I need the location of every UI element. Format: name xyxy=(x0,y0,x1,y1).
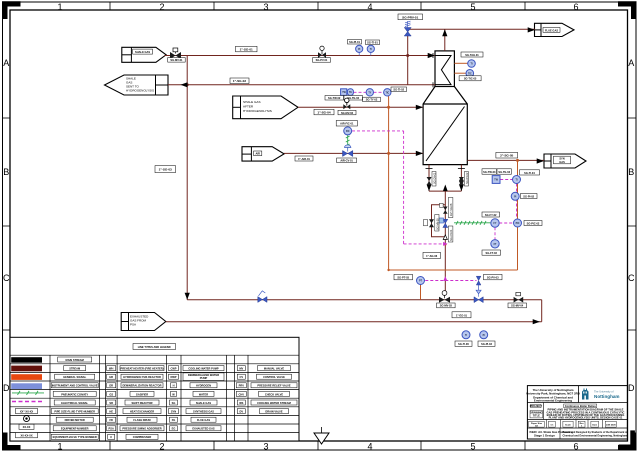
svg-text:INSTRUMENT AND CONTROL VALVE: INSTRUMENT AND CONTROL VALVE xyxy=(52,384,98,388)
svg-text:SYN: SYN xyxy=(171,410,176,414)
svg-text:1"-SG-06: 1"-SG-06 xyxy=(426,254,438,258)
svg-text:SG-PRV-01: SG-PRV-01 xyxy=(402,15,418,19)
svg-text:DRAIN VALVE: DRAIN VALVE xyxy=(265,410,282,414)
svg-text:FLUE GAS: FLUE GAS xyxy=(197,418,210,422)
svg-text:2"-SG-05: 2"-SG-05 xyxy=(500,154,513,158)
svg-text:CWP: CWP xyxy=(170,367,176,371)
svg-text:PRESSURE SWING ADSORBER: PRESSURE SWING ADSORBER xyxy=(122,427,161,431)
svg-text:HYDROGENOLYSIS: HYDROGENOLYSIS xyxy=(126,89,154,93)
svg-text:SG-DV-02: SG-DV-02 xyxy=(466,172,469,184)
svg-text:EQUIPMENT-VALVE TYPE-NUMBER: EQUIPMENT-VALVE TYPE-NUMBER xyxy=(53,435,97,439)
svg-text:COMPRESSER: COMPRESSER xyxy=(133,435,152,439)
svg-text:PSA: PSA xyxy=(130,323,136,327)
svg-text:XX-XX: XX-XX xyxy=(23,425,31,429)
svg-text:STREAM: STREAM xyxy=(69,367,80,371)
svg-text:3: 3 xyxy=(263,442,268,452)
svg-text:PI: PI xyxy=(358,49,361,51)
svg-text:DEMINERALIZATION REACTOR: DEMINERALIZATION REACTOR xyxy=(122,384,161,388)
svg-text:SG-TY-02: SG-TY-02 xyxy=(366,98,378,102)
svg-text:MV: MV xyxy=(239,367,243,371)
svg-text:SG-TIC-05: SG-TIC-05 xyxy=(464,77,477,81)
svg-text:SG-FT-02: SG-FT-02 xyxy=(486,251,498,255)
svg-text:SG-TAH-01: SG-TAH-01 xyxy=(465,53,479,57)
svg-text:GENERAL SIGNAL: GENERAL SIGNAL xyxy=(63,375,87,379)
svg-text:A: A xyxy=(628,58,634,68)
svg-text:TI: TI xyxy=(515,180,517,182)
svg-text:CV: CV xyxy=(239,375,243,379)
svg-text:2: 2 xyxy=(159,442,164,452)
svg-text:PIC: PIC xyxy=(516,223,520,225)
svg-text:FLUE GAS: FLUE GAS xyxy=(545,28,558,32)
svg-text:DWP: DWP xyxy=(170,375,176,379)
svg-text:XX-XX-XX: XX-XX-XX xyxy=(20,434,32,438)
svg-text:EQUIPMENT-NUMBER: EQUIPMENT-NUMBER xyxy=(61,427,89,431)
svg-text:FY: FY xyxy=(494,223,497,225)
svg-text:SG-PT-03: SG-PT-03 xyxy=(397,276,409,280)
svg-text:Nottingham: Nottingham xyxy=(594,394,620,399)
svg-text:SG-TI-06: SG-TI-06 xyxy=(458,342,469,346)
svg-text:HR: HR xyxy=(109,375,113,379)
svg-text:TI: TI xyxy=(465,335,467,337)
svg-text:DV: DV xyxy=(239,410,243,414)
svg-text:Date: Date xyxy=(592,423,598,426)
svg-text:SG-MV-02: SG-MV-02 xyxy=(341,111,354,115)
svg-text:5: 5 xyxy=(470,2,475,12)
svg-text:GASIFIER: GASIFIER xyxy=(136,392,148,396)
svg-text:COOLING WATER PUMP: COOLING WATER PUMP xyxy=(188,367,218,371)
svg-text:PI: PI xyxy=(483,335,486,337)
svg-text:3: 3 xyxy=(263,2,268,12)
svg-text:SG-MV-04: SG-MV-04 xyxy=(511,304,524,308)
svg-text:TE: TE xyxy=(349,92,352,94)
svg-text:SR: SR xyxy=(109,401,113,405)
svg-text:SG-PI-02: SG-PI-02 xyxy=(523,194,534,198)
svg-text:6: 6 xyxy=(573,2,578,12)
svg-text:1"-EG-01: 1"-EG-01 xyxy=(456,313,468,317)
svg-text:FD: FD xyxy=(109,418,113,422)
svg-text:1"-SG-02: 1"-SG-02 xyxy=(233,79,246,83)
svg-text:LINE TYPES AND LEGEND: LINE TYPES AND LEGEND xyxy=(138,345,171,349)
svg-text:SG-CV-01: SG-CV-01 xyxy=(450,229,453,241)
svg-text:6: 6 xyxy=(573,442,578,452)
svg-text:CHV: CHV xyxy=(239,392,245,396)
svg-text:SG-PV-03: SG-PV-03 xyxy=(487,276,499,280)
svg-text:PNEUMATIC CONVEY: PNEUMATIC CONVEY xyxy=(61,392,88,396)
svg-text:SG-TW-03: SG-TW-03 xyxy=(483,170,496,174)
svg-text:4: 4 xyxy=(367,442,372,452)
svg-text:TITLE: TITLE xyxy=(533,413,540,417)
svg-text:H: H xyxy=(173,384,175,388)
svg-text:PLANT AND HYDROGENOLYSIS UNITS: PLANT AND HYDROGENOLYSIS UNITS, DESIGN C… xyxy=(549,416,623,420)
svg-text:1"-SG-01: 1"-SG-01 xyxy=(240,48,253,52)
svg-text:4: 4 xyxy=(367,2,372,12)
svg-text:Stage 1 Design: Stage 1 Design xyxy=(534,434,555,438)
svg-text:SG-PV-01: SG-PV-01 xyxy=(316,58,328,62)
svg-text:SHALE GAS: SHALE GAS xyxy=(243,100,261,104)
svg-text:CHECK VALVE: CHECK VALVE xyxy=(265,392,283,396)
svg-text:HYDROGENOLYSIS: HYDROGENOLYSIS xyxy=(243,109,272,113)
svg-text:DRIVEN MOTOR: DRIVEN MOTOR xyxy=(65,418,85,422)
svg-text:SYNTHESIS GAS: SYNTHESIS GAS xyxy=(193,410,214,414)
svg-text:SG-FY-02: SG-FY-02 xyxy=(485,213,497,217)
svg-text:SG-TI-04: SG-TI-04 xyxy=(524,171,535,175)
svg-text:HE: HE xyxy=(109,410,113,414)
svg-text:SHIFT REACTOR: SHIFT REACTOR xyxy=(132,401,153,405)
svg-text:TI: TI xyxy=(470,64,472,66)
svg-text:MAIN STREAM: MAIN STREAM xyxy=(66,358,84,362)
svg-text:2: 2 xyxy=(159,2,164,12)
svg-text:SG-PI-01: SG-PI-01 xyxy=(349,40,360,44)
svg-text:B: B xyxy=(628,167,634,177)
svg-text:SG-TE-02: SG-TE-02 xyxy=(347,96,359,100)
svg-text:SG-MV-01: SG-MV-01 xyxy=(170,58,183,62)
svg-text:JUN 2020: JUN 2020 xyxy=(606,424,617,426)
svg-text:CONTROL VALVE: CONTROL VALVE xyxy=(263,375,285,379)
svg-text:PSA: PSA xyxy=(109,427,114,431)
svg-text:PRV: PRV xyxy=(239,384,245,388)
svg-text:Environmental Engineering: Environmental Engineering xyxy=(534,399,572,403)
svg-text:MANUAL VALVE: MANUAL VALVE xyxy=(264,367,284,371)
svg-text:ELECTRICAL SIGNAL: ELECTRICAL SIGNAL xyxy=(61,401,88,405)
svg-text:WATER: WATER xyxy=(199,392,208,396)
svg-text:C: C xyxy=(3,273,10,283)
svg-text:SHALE GAS: SHALE GAS xyxy=(196,401,211,405)
svg-text:HYDROGENOLYSIS REACTOR: HYDROGENOLYSIS REACTOR xyxy=(123,375,161,379)
svg-text:SG-TI-02: SG-TI-02 xyxy=(393,88,404,92)
svg-text:TY: TY xyxy=(368,92,371,94)
svg-text:SG-TW-02: SG-TW-02 xyxy=(328,96,341,100)
svg-text:PREHEAT HEATER (FIRE HEATER): PREHEAT HEATER (FIRE HEATER) xyxy=(121,367,164,371)
svg-text:B: B xyxy=(3,167,9,177)
svg-text:SG-TE-03: SG-TE-03 xyxy=(498,170,510,174)
svg-text:A: A xyxy=(3,58,9,68)
svg-text:1/2"-SG-06: 1/2"-SG-06 xyxy=(450,203,453,216)
svg-text:EXHAUSTED GAS: EXHAUSTED GAS xyxy=(192,427,215,431)
svg-text:Paper Size: Paper Size xyxy=(531,423,543,425)
svg-text:HEAT EXCHANGER: HEAT EXCHANGER xyxy=(130,410,154,414)
svg-text:Chemical and Environmental Eng: Chemical and Environmental Engineering, … xyxy=(563,435,629,438)
svg-text:GAS: GAS xyxy=(559,160,565,164)
svg-text:AIR: AIR xyxy=(255,152,260,156)
svg-text:SHALE GAS: SHALE GAS xyxy=(135,50,150,54)
svg-text:HYDROGEN: HYDROGEN xyxy=(196,384,211,388)
svg-text:C: C xyxy=(628,273,635,283)
svg-text:PRESSURE RELIEF VALVE: PRESSURE RELIEF VALVE xyxy=(257,384,290,388)
svg-text:FLASH DRUM: FLASH DRUM xyxy=(133,418,150,422)
svg-text:FG: FG xyxy=(172,418,176,422)
svg-text:FIC: FIC xyxy=(346,131,350,133)
svg-text:DR: DR xyxy=(109,384,113,388)
svg-text:SG-PI-03: SG-PI-03 xyxy=(481,342,492,346)
svg-text:1"-AIR-01: 1"-AIR-01 xyxy=(298,157,310,161)
svg-text:GS: GS xyxy=(109,392,113,396)
svg-text:SG-DV-01: SG-DV-01 xyxy=(434,172,437,184)
svg-text:1: 1 xyxy=(57,2,62,12)
svg-text:1"-SG-03: 1"-SG-03 xyxy=(159,168,172,172)
svg-text:D: D xyxy=(3,383,10,393)
svg-text:WS: WS xyxy=(239,401,243,405)
svg-text:PIPE SIZE-FLUID TYPE-NUMBER: PIPE SIZE-FLUID TYPE-NUMBER xyxy=(54,410,95,414)
svg-text:Scale: Scale xyxy=(565,424,572,426)
svg-text:WH: WH xyxy=(109,367,113,371)
svg-text:5: 5 xyxy=(470,442,475,452)
svg-text:TIC: TIC xyxy=(385,92,389,94)
svg-text:SG-PIC-02: SG-PIC-02 xyxy=(527,221,540,225)
svg-text:AIR-CV-01: AIR-CV-01 xyxy=(340,159,353,163)
svg-text:COOLING WATER STREAM: COOLING WATER STREAM xyxy=(257,401,291,405)
svg-text:EG: EG xyxy=(172,427,176,431)
svg-text:SG-MV-05: SG-MV-05 xyxy=(436,218,439,230)
svg-text:XX"-XX-XX: XX"-XX-XX xyxy=(20,409,34,413)
svg-text:TIC: TIC xyxy=(468,73,472,75)
svg-text:D: D xyxy=(628,383,635,393)
svg-text:TI: TI xyxy=(370,49,372,51)
svg-text:SG-TI-01: SG-TI-01 xyxy=(367,41,378,45)
svg-text:AFTER: AFTER xyxy=(243,105,254,109)
svg-text:AIR-FIC-01: AIR-FIC-01 xyxy=(340,122,354,126)
svg-text:C: C xyxy=(110,435,112,439)
svg-text:1: 1 xyxy=(57,442,62,452)
svg-text:PUMP: PUMP xyxy=(200,376,208,380)
svg-text:Continuous Boiler Duties: Continuous Boiler Duties xyxy=(565,404,597,408)
svg-text:PI: PI xyxy=(514,196,517,198)
svg-text:PROJECT: PROJECT xyxy=(530,404,543,408)
svg-text:1"-SG-04: 1"-SG-04 xyxy=(317,111,330,115)
svg-text:SG: SG xyxy=(172,401,176,405)
svg-text:SG-MV-03: SG-MV-03 xyxy=(440,304,453,308)
